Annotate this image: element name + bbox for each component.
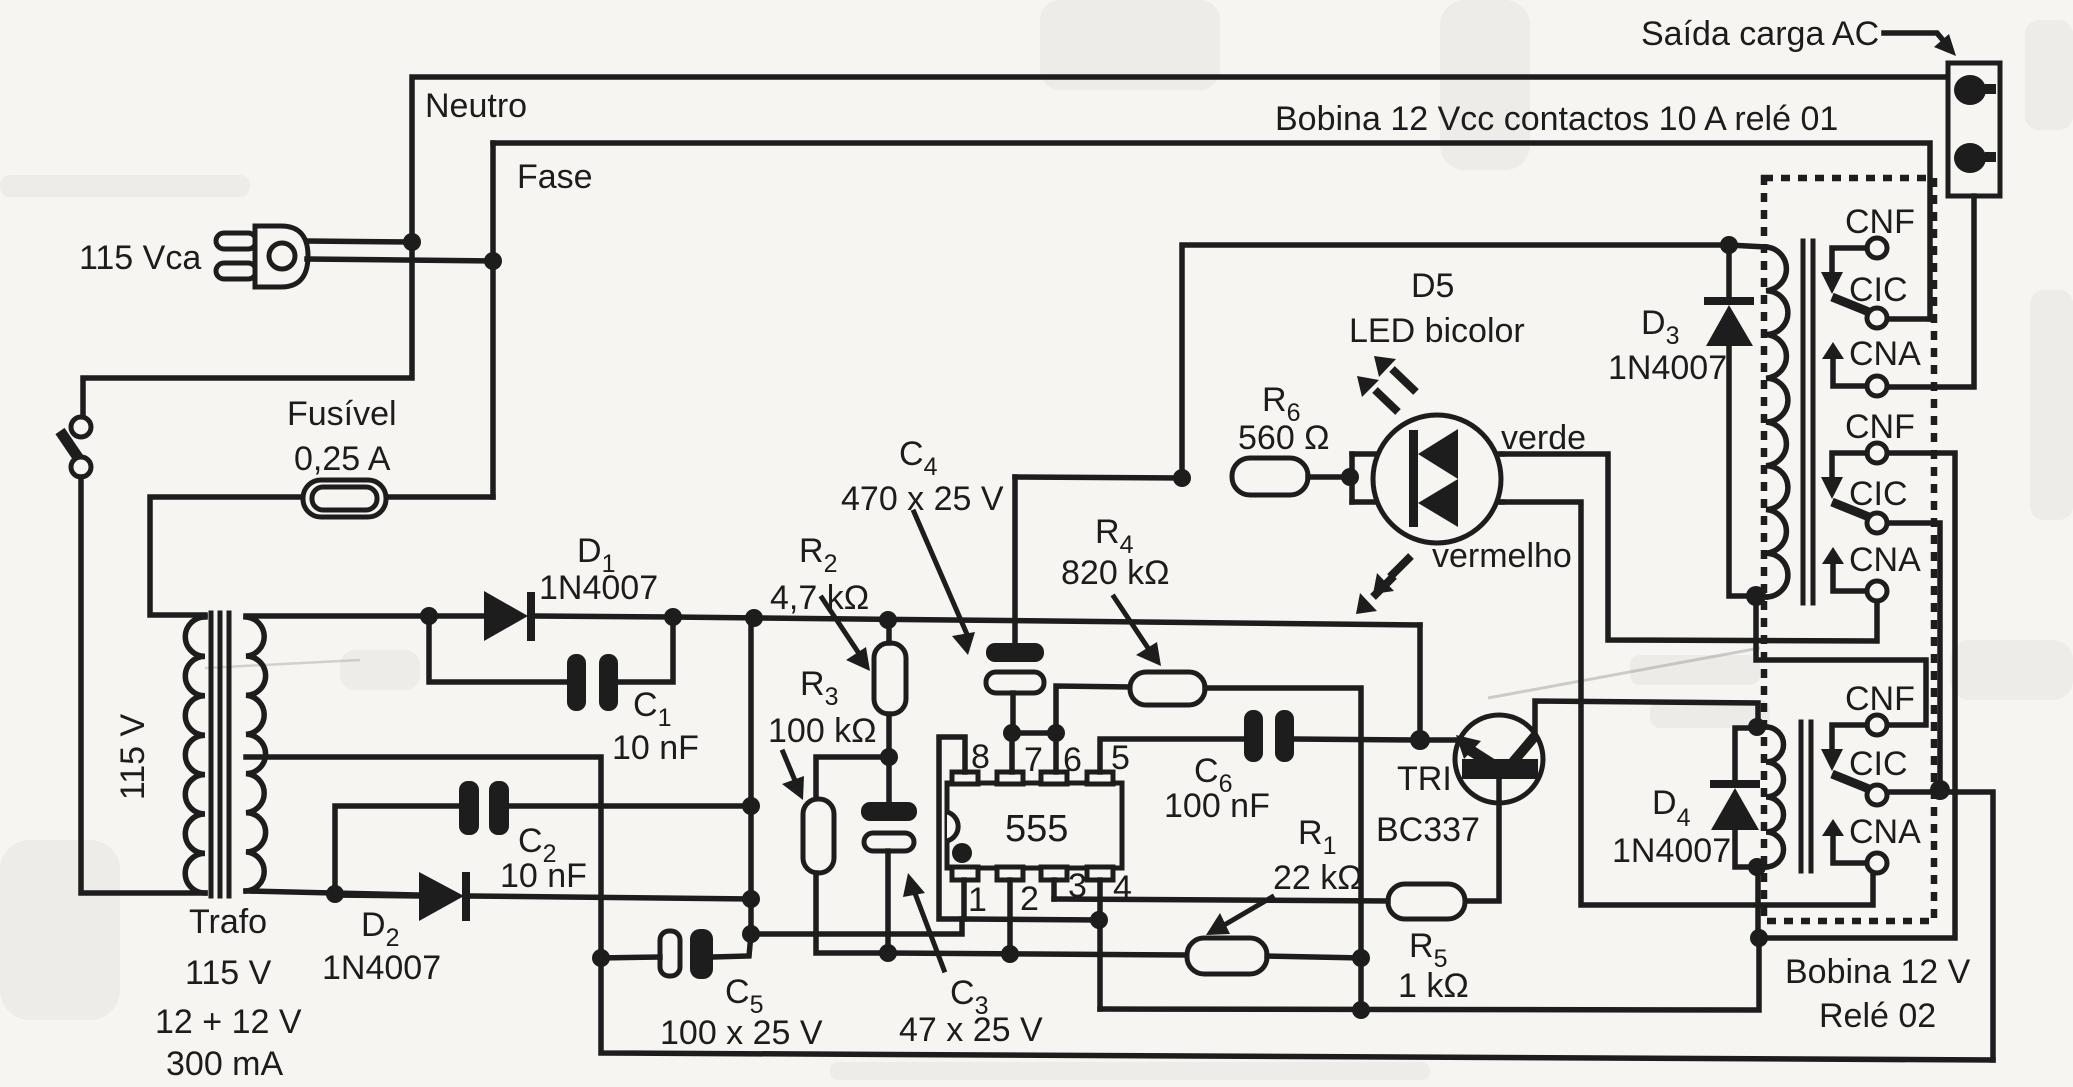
wire CIC relay2 row to bottom rail (1886, 792, 1993, 1060)
svg-text:470 x 25 V: 470 x 25 V (841, 480, 1004, 518)
svg-text:Fase: Fase (517, 158, 593, 196)
capacitor C4 top lead (1012, 477, 1018, 643)
svg-text:820 kΩ: 820 kΩ (1061, 554, 1170, 592)
arrow C3 (916, 896, 944, 970)
wire R4 right (1205, 688, 1361, 1010)
node pin7 (1003, 724, 1021, 742)
node pin2 row (1001, 945, 1019, 963)
node D4 top (1748, 718, 1766, 736)
svg-text:7: 7 (1024, 741, 1043, 779)
wire pin6 to R4 (1056, 686, 1130, 733)
node D3 top (1720, 236, 1738, 254)
wire C5 link (711, 934, 751, 957)
diode D1 (484, 591, 528, 641)
node CIC relay2 (1930, 780, 1950, 800)
wire plug to Fase (307, 259, 493, 261)
relay 2 core (1799, 722, 1804, 871)
node pin6 (1047, 724, 1065, 742)
svg-text:115 V: 115 V (185, 954, 272, 992)
relay contact set A CNA arrow (1822, 342, 1844, 359)
node D2 cathode x751 (742, 890, 760, 908)
diode D3 (1726, 245, 1732, 298)
arrow C4 (914, 512, 966, 632)
555 notch (947, 812, 958, 841)
wire pin3 to R5 (1054, 899, 1388, 901)
wire pin8 loop (939, 737, 965, 919)
svg-text:TRI: TRI (1397, 760, 1452, 798)
wire D2 cathode (470, 896, 751, 899)
LED D5 cathode bar (1409, 430, 1418, 527)
svg-text:Neutro: Neutro (425, 87, 527, 125)
node rail R2 (879, 611, 897, 629)
node LED anode (1341, 468, 1359, 486)
arrow R3 (783, 752, 796, 783)
svg-text:8: 8 (971, 738, 990, 776)
wire pin1/8 row to pin4 (964, 919, 1100, 920)
svg-text:1N4007: 1N4007 (1612, 832, 1731, 870)
relay contact set A CIC lever (1832, 297, 1869, 312)
wire C1 bypass loop (429, 616, 567, 682)
relay contact set B CNA arrow (1822, 547, 1844, 564)
svg-text:CNA: CNA (1849, 813, 1921, 851)
wire secondary bottom to D2 (246, 891, 419, 895)
wire collector (1535, 701, 1758, 738)
wire R6 feed row (1015, 477, 1182, 478)
wire C3 bottom (885, 851, 891, 953)
transformer Trafo primary winding (185, 617, 205, 893)
relay 2 coil (1757, 724, 1766, 730)
wire C2 bypass loop (335, 806, 459, 894)
node R1 right (1352, 949, 1370, 967)
wire y938 to CNF-B (1759, 453, 1955, 938)
wire pin2 lead (1007, 880, 1013, 954)
svg-text:1: 1 (968, 881, 987, 919)
svg-text:Bobina 12 Vcc contactos 10 A r: Bobina 12 Vcc contactos 10 A relé 01 (1275, 100, 1838, 138)
dashed relay box (1764, 178, 1934, 921)
wire pin5 lead (1100, 739, 1244, 772)
outlet Saida carga AC (1948, 63, 2000, 196)
resistor R4 (1130, 672, 1205, 705)
LED emission arrows bottom (1390, 556, 1411, 577)
svg-text:Bobina 12 V: Bobina 12 V (1785, 953, 1971, 991)
wire C6 right to node (1294, 739, 1420, 740)
LED D5 circle (1373, 415, 1501, 543)
svg-text:1N4007: 1N4007 (322, 949, 441, 987)
node R6 row (1173, 469, 1191, 487)
op-amp 555 IC body (947, 783, 1122, 868)
node pin4 row (1090, 911, 1108, 929)
svg-text:560 Ω: 560 Ω (1238, 419, 1330, 457)
resistor R1 (1187, 938, 1267, 974)
relay 1 core (1801, 241, 1806, 603)
relay contact set A CNF (1867, 238, 1887, 258)
transformer core (209, 613, 214, 896)
wire top row to relay1 coil (1729, 245, 1766, 247)
svg-text:CNF: CNF (1845, 680, 1915, 718)
svg-text:6: 6 (1063, 741, 1082, 779)
capacitor C5 (660, 931, 680, 976)
pin stubs bottom (952, 867, 978, 880)
svg-text:CNA: CNA (1849, 335, 1921, 373)
wire emitter (1420, 737, 1459, 743)
wire R1 right (1267, 956, 1361, 958)
svg-text:100 kΩ: 100 kΩ (768, 712, 877, 750)
svg-text:1N4007: 1N4007 (1608, 349, 1727, 387)
svg-text:verde: verde (1501, 419, 1586, 457)
wire C3 top (886, 757, 892, 802)
wire Neutro line (83, 77, 1948, 417)
svg-text:CIC: CIC (1849, 745, 1908, 783)
wire trigger row (888, 953, 1187, 955)
wire pin4 lead (1097, 880, 1103, 1009)
diode D2 (335, 895, 419, 896)
resistor R6 (1232, 458, 1308, 495)
svg-text:Saída carga AC: Saída carga AC (1641, 15, 1879, 53)
transistor TRI BC337 (1455, 715, 1543, 803)
svg-text:555: 555 (1005, 808, 1068, 850)
svg-text:CIC: CIC (1849, 475, 1908, 513)
svg-text:Trafo: Trafo (189, 903, 267, 941)
wire bottom row pin4 (1100, 938, 1759, 1010)
wire pin7-pin6 link (1012, 730, 1056, 736)
node y938 (1750, 929, 1768, 947)
resistor R5 (1388, 884, 1465, 919)
node D2 anode (326, 885, 344, 903)
wire pin3 lead (1051, 880, 1057, 899)
svg-text:D5: D5 (1411, 267, 1454, 305)
wire C5 left (601, 957, 660, 958)
node emitter/C6/rail (1410, 730, 1430, 750)
wire C2 right (509, 803, 751, 809)
svg-text:22 kΩ: 22 kΩ (1273, 859, 1363, 897)
svg-text:CNF: CNF (1845, 203, 1915, 241)
wire fuse line (150, 497, 493, 615)
svg-text:vermelho: vermelho (1432, 537, 1572, 575)
node secondary top (420, 607, 438, 625)
wire R3 top link (816, 757, 889, 799)
wire pin6 lead (1053, 733, 1059, 772)
svg-text:Fusível: Fusível (287, 395, 397, 433)
capacitor C1 (567, 654, 586, 711)
node rail x751 (745, 609, 763, 627)
svg-text:115 V: 115 V (114, 714, 152, 801)
svg-text:300 mA: 300 mA (166, 1045, 283, 1083)
plug 115 Vca (216, 233, 256, 249)
wire main rail (673, 617, 1420, 625)
wire riser to top row (1182, 245, 1729, 478)
fuse Fusivel 0,25A (303, 480, 386, 517)
wire rail drop to node (1417, 625, 1423, 740)
svg-text:CNF: CNF (1845, 408, 1915, 446)
wire V+ drop x751 (748, 618, 754, 934)
diode D4 (1735, 728, 1757, 781)
svg-text:CIC: CIC (1849, 271, 1908, 309)
wire secondary top to D1 (246, 613, 484, 619)
wire secondary mid tap (246, 757, 1993, 1060)
arrow Saida carga AC (1884, 33, 1947, 45)
arrow R4 (1114, 597, 1148, 648)
svg-text:2: 2 (1020, 880, 1039, 918)
wire R2 bottom (886, 714, 892, 758)
relay contact set R2 CIC lever (1832, 774, 1869, 789)
node x751 y934 (742, 925, 760, 943)
LED emission arrows top (1392, 369, 1416, 392)
node C3 bottom (879, 944, 897, 962)
svg-text:12 + 12 V: 12 + 12 V (155, 1003, 302, 1041)
wire base (1465, 778, 1499, 901)
wire Fase line (493, 143, 1930, 319)
svg-text:1N4007: 1N4007 (539, 569, 658, 607)
capacitor C3 (861, 802, 917, 821)
relay contact set R2 CNF (1867, 715, 1887, 735)
wire plug to Neutro (307, 241, 412, 242)
LED D5 triangles (1418, 429, 1458, 479)
relay contact set B CIC lever (1832, 502, 1869, 517)
svg-text:10 nF: 10 nF (612, 729, 699, 767)
svg-text:LED bicolor: LED bicolor (1349, 312, 1525, 350)
capacitor C2 (459, 781, 479, 835)
svg-text:0,25 A: 0,25 A (294, 440, 391, 478)
svg-text:47 x 25 V: 47 x 25 V (899, 1011, 1043, 1049)
wire coil bottom to relay2 CNF (1756, 596, 1926, 725)
arrow R2 (822, 598, 858, 652)
svg-text:4: 4 (1113, 869, 1132, 907)
resistor R3 (803, 799, 834, 873)
wire relay2 coil bottom drop (1755, 867, 1761, 938)
svg-text:1 kΩ: 1 kΩ (1398, 967, 1469, 1005)
svg-text:Relé 02: Relé 02 (1819, 997, 1936, 1035)
wire verde (1502, 454, 1877, 641)
svg-text:3: 3 (1068, 867, 1087, 905)
wire vermelho (1502, 502, 1873, 905)
node bottom row R1 (1352, 1001, 1370, 1019)
wire y934 row to pin1/8 (751, 919, 962, 934)
node R2/R3/C3 (880, 748, 898, 766)
wire CIC-B drop (1887, 523, 1940, 790)
svg-text:10 nF: 10 nF (500, 857, 587, 895)
relay 1 coil (1766, 247, 1788, 597)
svg-text:CNA: CNA (1849, 541, 1921, 579)
wire CIC-A to Fase (1887, 316, 1930, 322)
node Neutro-plug (403, 233, 421, 251)
wire R3 bottom (816, 873, 888, 953)
arrow R1 (1226, 897, 1272, 924)
wire outlet bottom to CNA (1887, 196, 1974, 387)
switch interruptor (71, 417, 91, 437)
555 pin1 marker dot (952, 843, 972, 863)
node C2 x751 (742, 797, 760, 815)
wire switch to transformer (81, 477, 205, 893)
wire relay1 coil bottom (1756, 596, 1766, 597)
svg-text:5: 5 (1111, 739, 1130, 777)
capacitor C6 (1244, 710, 1263, 762)
node ground C5 (592, 949, 610, 967)
relay contact set B CNF (1867, 443, 1887, 463)
node Fase-plug (484, 252, 502, 270)
capacitor C4 (986, 643, 1044, 662)
transformer secondary winding (246, 617, 266, 891)
relay contact set R2 CNA arrow (1822, 819, 1844, 836)
wire pin7 lead (1009, 733, 1015, 772)
pin stubs top (952, 772, 978, 784)
svg-text:115 Vca: 115 Vca (79, 239, 201, 277)
LED D5 bracket (1349, 454, 1355, 502)
svg-text:BC337: BC337 (1376, 811, 1480, 849)
resistor R2 (874, 643, 906, 714)
svg-text:100 nF: 100 nF (1164, 787, 1270, 825)
node D4 bottom (1748, 858, 1766, 876)
wire D1 cathode to rail (535, 616, 673, 617)
node rail C1 (664, 608, 682, 626)
wire C4 bottom to pin7 (1010, 693, 1016, 733)
svg-text:100 x 25 V: 100 x 25 V (660, 1014, 823, 1052)
node relay1 coil bottom (1746, 586, 1766, 606)
